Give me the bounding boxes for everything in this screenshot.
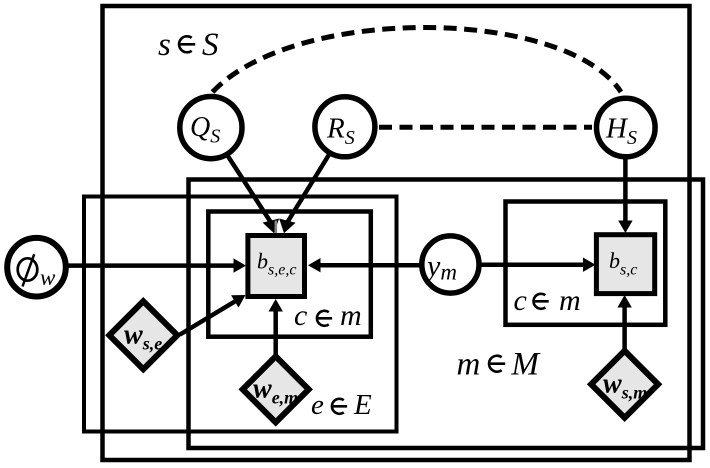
plate e in E [84, 197, 397, 432]
node w_sm (diamond) [591, 351, 658, 418]
svg-text:m: m [457, 347, 481, 383]
svg-text:m: m [340, 299, 362, 332]
arrow w_sm to b_sc [617, 295, 631, 350]
plate label e ∈ E [311, 389, 372, 421]
svg-text:S: S [202, 27, 219, 63]
plate label s ∈ S [158, 27, 219, 63]
arrow w_em to b_sec [269, 299, 283, 355]
arrow y_m to b_sec [308, 258, 420, 272]
svg-text:s: s [158, 27, 171, 63]
svg-text:M: M [511, 347, 541, 383]
node w_em (diamond) [243, 356, 309, 422]
node phi_w (circle) [7, 238, 66, 297]
node b_sec (square) [248, 236, 305, 297]
svg-text:w: w [40, 265, 56, 290]
node R_S (circle) [315, 97, 375, 157]
dashed arc Q_S to H_S [213, 27, 622, 92]
node Q_S (circle) [180, 97, 242, 159]
node w_se (diamond) [109, 301, 177, 369]
dashed edge R_S to H_S [379, 125, 592, 130]
arrow R_S to b_sec [279, 155, 329, 233]
gray stub above b_sec [274, 221, 277, 234]
arrow H_S to b_sc [618, 156, 632, 233]
svg-text:E: E [353, 389, 372, 421]
plate label m ∈ M [457, 347, 541, 383]
arrow w_se to b_sec [180, 295, 246, 335]
plate m in M [189, 180, 704, 449]
svg-text:m: m [559, 284, 581, 317]
svg-text:e: e [311, 389, 324, 421]
plate label c ∈ m (left) [294, 299, 362, 332]
arrow phi_w to b_sec [64, 258, 246, 272]
arrow y_m to b_sc [481, 258, 596, 272]
plate label c ∈ m (right) [514, 284, 581, 317]
node H_S (circle) [597, 98, 656, 157]
svg-text:c: c [294, 299, 307, 332]
node b_sc (square) [596, 235, 654, 294]
plate c in m (left, around b_sec) [208, 212, 370, 337]
arrow Q_S to b_sec [228, 156, 279, 233]
plate c in m (right, around b_sc) [506, 202, 666, 325]
node y_m (circle) [422, 236, 479, 293]
svg-text:c: c [514, 284, 527, 317]
